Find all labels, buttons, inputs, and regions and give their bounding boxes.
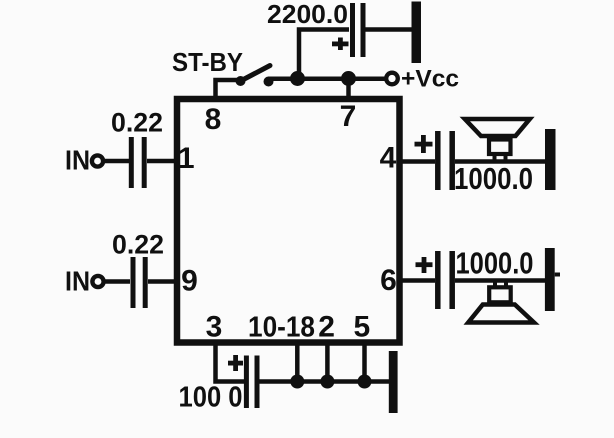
svg-text:100 0: 100 0	[179, 382, 243, 414]
svg-text:8: 8	[205, 103, 222, 136]
svg-text:IN: IN	[65, 266, 90, 297]
svg-text:+Vcc: +Vcc	[401, 66, 459, 93]
svg-text:5: 5	[353, 311, 370, 344]
svg-text:ST-BY: ST-BY	[172, 47, 243, 77]
svg-text:9: 9	[181, 265, 198, 298]
svg-text:3: 3	[206, 311, 223, 344]
svg-text:0.22: 0.22	[112, 230, 164, 260]
svg-text:2: 2	[318, 311, 335, 344]
svg-text:0.22: 0.22	[111, 108, 163, 138]
svg-text:10-18: 10-18	[248, 312, 315, 344]
svg-text:6: 6	[380, 264, 397, 297]
svg-text:1000.0: 1000.0	[454, 161, 533, 196]
svg-text:IN: IN	[65, 145, 90, 176]
svg-text:7: 7	[340, 100, 357, 133]
svg-text:4: 4	[380, 142, 397, 175]
svg-text:1: 1	[178, 142, 195, 175]
svg-text:1000.0: 1000.0	[456, 246, 534, 281]
svg-text:2200.0: 2200.0	[267, 0, 348, 29]
